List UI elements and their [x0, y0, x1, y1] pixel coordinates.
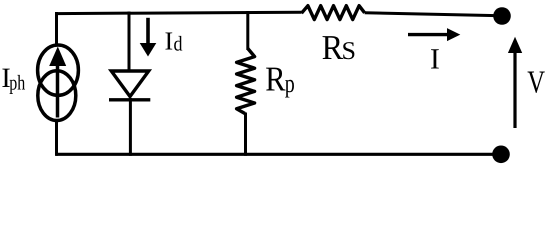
svg-text:ph: ph [9, 70, 25, 94]
label Id [165, 27, 183, 56]
terminal positive [493, 7, 511, 25]
wire top rail right [365, 13, 496, 16]
wire top rail left [56, 12, 302, 13]
current arrow Id [140, 18, 157, 57]
resistor Rp [237, 49, 255, 114]
wire Rp branch lower [244, 113, 247, 156]
svg-text:R: R [322, 28, 344, 67]
svg-text:R: R [265, 60, 286, 99]
label Rp [265, 60, 295, 99]
wire bottom rail [56, 153, 497, 156]
svg-text:I: I [430, 44, 440, 76]
label RS [322, 28, 356, 67]
resistor RS [302, 6, 365, 20]
terminal negative [492, 146, 510, 164]
wire left branch lower [55, 120, 58, 156]
wire Rp branch upper [246, 11, 249, 50]
current source Iph [38, 45, 79, 121]
svg-text:p: p [285, 69, 295, 98]
wire left branch upper [55, 12, 58, 45]
svg-text:d: d [174, 31, 183, 55]
label Iph [1, 63, 25, 94]
svg-text:I: I [165, 27, 174, 56]
wire diode branch lower [129, 98, 132, 156]
current arrow I [408, 28, 460, 41]
svg-text:S: S [342, 36, 357, 65]
diode D [109, 71, 150, 100]
wire diode branch upper [128, 12, 131, 73]
voltage arrow V [508, 37, 522, 128]
svg-text:V: V [527, 64, 545, 100]
